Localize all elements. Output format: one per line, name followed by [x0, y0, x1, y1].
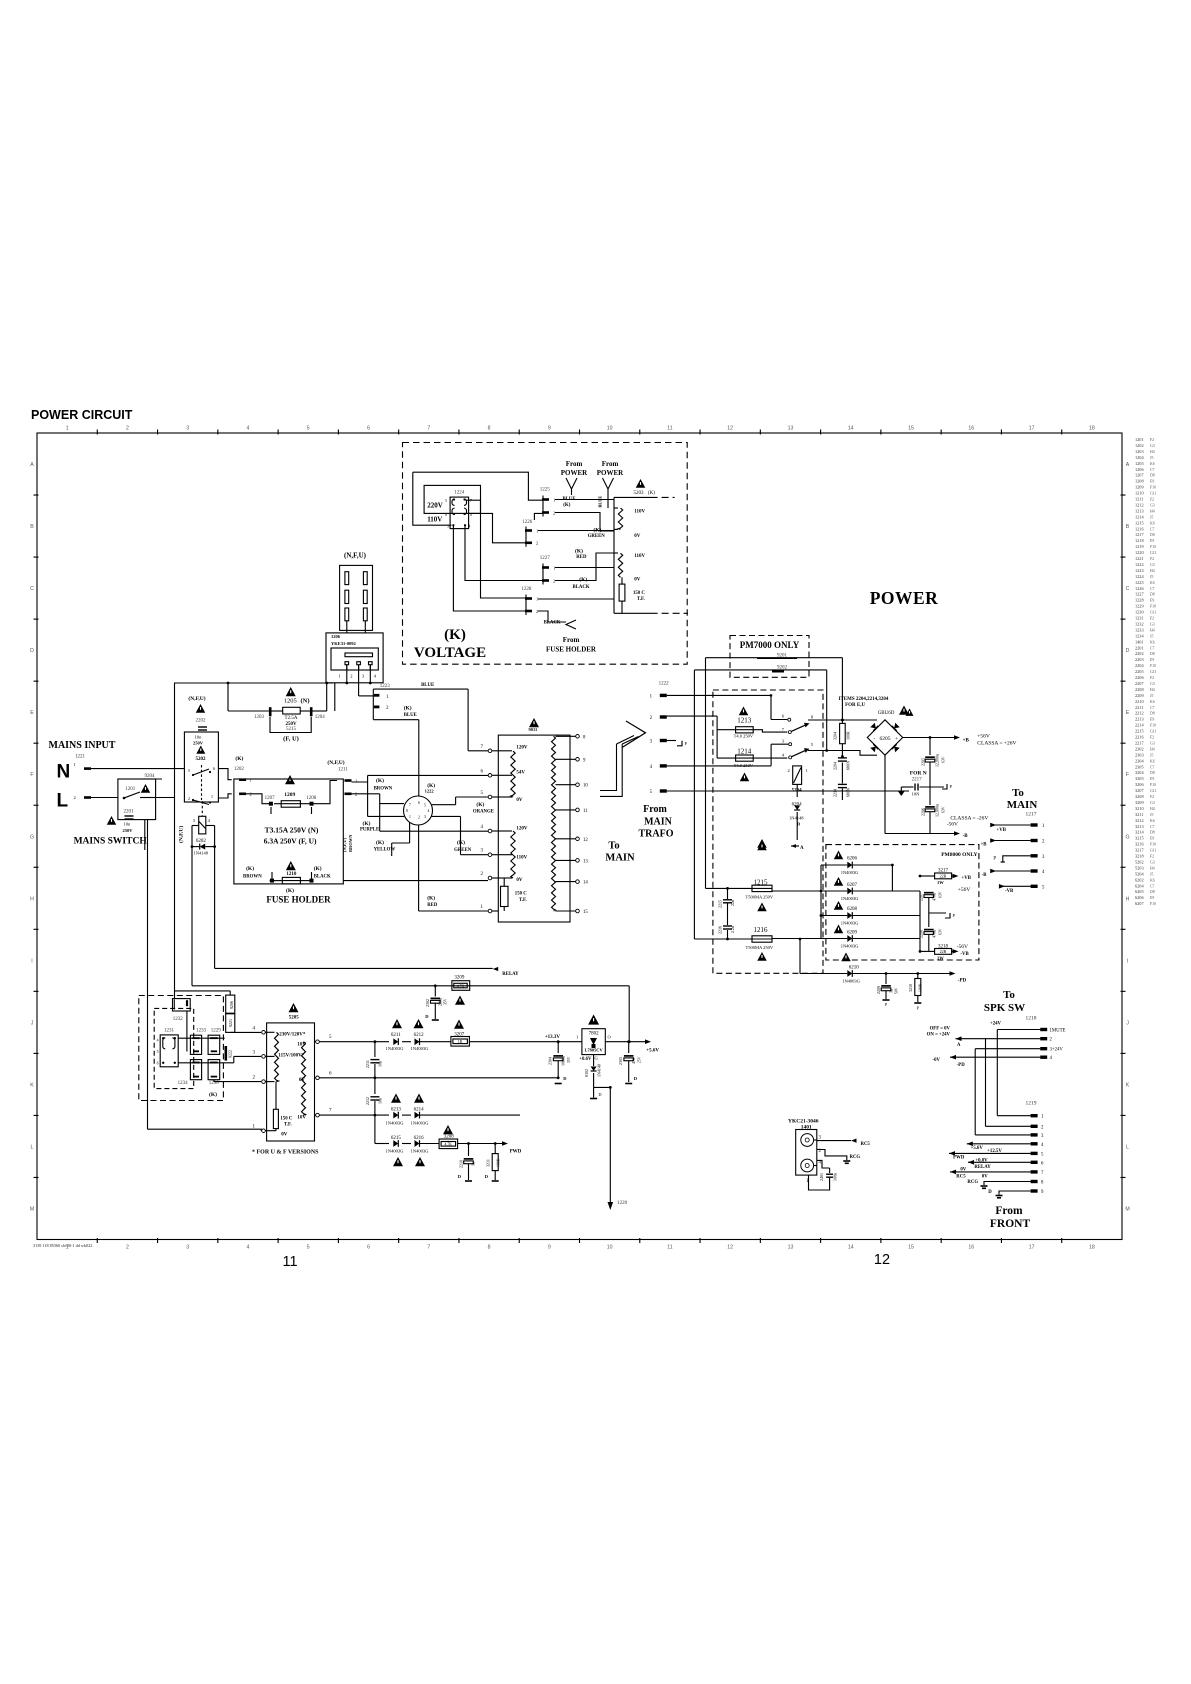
svg-text:5215: 5215 — [286, 727, 297, 732]
svg-text:1N4003G: 1N4003G — [386, 1046, 404, 1051]
svg-text:1N4003G: 1N4003G — [411, 1121, 429, 1126]
svg-text:K6: K6 — [1150, 521, 1155, 525]
svg-text:6207: 6207 — [1135, 901, 1144, 906]
svg-text:9221: 9221 — [228, 1019, 233, 1027]
svg-text:13: 13 — [788, 426, 794, 432]
svg-text:J5: J5 — [1150, 813, 1153, 817]
svg-text:1208: 1208 — [1135, 479, 1144, 484]
svg-text:+5.6V: +5.6V — [646, 1049, 659, 1054]
svg-text:1: 1 — [66, 426, 69, 432]
svg-text:TRAFO: TRAFO — [639, 829, 674, 840]
svg-text:63V: 63V — [939, 928, 943, 935]
svg-text:2214: 2214 — [1135, 723, 1144, 728]
svg-text:GREEN: GREEN — [454, 848, 472, 853]
svg-text:3210: 3210 — [1135, 806, 1144, 811]
svg-text:From: From — [602, 460, 619, 468]
svg-text:7: 7 — [427, 1245, 430, 1251]
svg-text:P: P — [993, 857, 996, 862]
svg-text:1211: 1211 — [338, 768, 348, 773]
svg-text:6207: 6207 — [847, 883, 858, 888]
svg-text:5: 5 — [188, 768, 190, 773]
svg-text:10: 10 — [607, 1245, 613, 1251]
svg-text:FUSE HOLDER: FUSE HOLDER — [546, 646, 597, 654]
svg-text:1N4003G: 1N4003G — [386, 1149, 404, 1154]
svg-text:(K): (K) — [314, 865, 322, 872]
svg-text:(N,F,U): (N,F,U) — [188, 695, 205, 702]
svg-text:+B: +B — [963, 739, 970, 744]
svg-text:J5: J5 — [1150, 515, 1153, 519]
svg-text:RED: RED — [427, 903, 438, 908]
svg-text:5203: 5203 — [634, 491, 645, 496]
svg-text:CLASSA = +26V: CLASSA = +26V — [977, 741, 1016, 747]
svg-text:F: F — [1126, 772, 1129, 778]
svg-text:1u: 1u — [889, 989, 894, 993]
svg-text:1N4003G: 1N4003G — [386, 1121, 404, 1126]
svg-text:150 C: 150 C — [280, 1117, 292, 1122]
svg-text:POWER: POWER — [870, 588, 939, 608]
svg-text:G3: G3 — [1150, 622, 1155, 626]
svg-text:9: 9 — [548, 1245, 551, 1251]
svg-text:From: From — [643, 804, 667, 815]
svg-text:F2: F2 — [1150, 855, 1154, 859]
svg-text:OFF = 0V: OFF = 0V — [930, 1027, 951, 1032]
svg-text:14: 14 — [848, 1245, 854, 1251]
svg-text:680N: 680N — [846, 761, 851, 770]
svg-text:9222: 9222 — [228, 1050, 233, 1058]
svg-text:1203: 1203 — [254, 715, 265, 720]
svg-text:1223: 1223 — [380, 684, 391, 689]
svg-text:F10: F10 — [1150, 605, 1156, 609]
svg-text:-B: -B — [963, 834, 969, 839]
svg-text:C7: C7 — [1150, 468, 1155, 472]
svg-text:1201: 1201 — [125, 787, 136, 792]
svg-text:T.F.: T.F. — [284, 1123, 292, 1128]
svg-text:3210: 3210 — [908, 984, 913, 992]
svg-text:13: 13 — [583, 859, 588, 864]
svg-text:2207: 2207 — [1135, 681, 1144, 686]
svg-text:12: 12 — [727, 1245, 733, 1251]
svg-text:F2: F2 — [1150, 617, 1154, 621]
svg-text:2401: 2401 — [819, 1173, 824, 1181]
svg-text:1224: 1224 — [454, 490, 465, 495]
svg-text:C7: C7 — [1150, 765, 1155, 769]
svg-text:2: 2 — [536, 541, 538, 546]
svg-text:F10: F10 — [1150, 783, 1156, 787]
svg-text:3214: 3214 — [1135, 830, 1144, 835]
svg-text:B: B — [1126, 524, 1130, 530]
svg-text:(N,F,U): (N,F,U) — [344, 551, 367, 559]
svg-text:2208: 2208 — [919, 930, 924, 938]
svg-text:2304: 2304 — [1135, 758, 1144, 763]
svg-text:6212: 6212 — [414, 1033, 425, 1038]
svg-text:6206: 6206 — [847, 857, 858, 862]
svg-text:2211: 2211 — [1135, 705, 1143, 710]
svg-text:F2: F2 — [1150, 438, 1154, 442]
svg-text:1221: 1221 — [1135, 556, 1144, 561]
svg-text:3+24V: 3+24V — [1050, 1048, 1064, 1053]
svg-text:1223: 1223 — [1135, 568, 1144, 573]
svg-text:F2: F2 — [1150, 795, 1154, 799]
svg-text:3212: 3212 — [1135, 818, 1144, 823]
svg-text:J5: J5 — [1150, 694, 1153, 698]
svg-text:3213: 3213 — [1135, 824, 1144, 829]
svg-text:1: 1 — [806, 768, 808, 773]
svg-text:T4.0 250V: T4.0 250V — [734, 734, 754, 739]
svg-text:1N4148: 1N4148 — [194, 851, 209, 856]
svg-text:1229: 1229 — [1135, 604, 1144, 609]
svg-text:H4: H4 — [1150, 807, 1155, 811]
svg-text:K6: K6 — [1150, 700, 1155, 704]
svg-text:1: 1 — [211, 794, 213, 799]
svg-text:3217: 3217 — [1135, 848, 1144, 853]
svg-text:E: E — [30, 710, 34, 716]
svg-text:M: M — [1125, 1206, 1129, 1212]
svg-text:1231: 1231 — [1135, 616, 1144, 621]
svg-text:120V: 120V — [516, 746, 528, 751]
svg-text:H: H — [1126, 896, 1130, 902]
svg-text:1202: 1202 — [234, 767, 245, 772]
svg-text:F10: F10 — [1150, 486, 1156, 490]
svg-text:220u: 220u — [438, 998, 443, 1006]
svg-text:F2: F2 — [1150, 676, 1154, 680]
svg-text:D8: D8 — [1150, 474, 1155, 478]
svg-text:6205: 6205 — [1135, 889, 1144, 894]
svg-text:1208: 1208 — [306, 796, 317, 801]
svg-text:ITEMS 2204,2214,3204: ITEMS 2204,2214,3204 — [839, 697, 889, 702]
svg-text:1N4003G: 1N4003G — [841, 944, 859, 949]
svg-text:ON = +24V: ON = +24V — [927, 1033, 951, 1038]
svg-text:9206: 9206 — [229, 1001, 234, 1009]
svg-text:1216: 1216 — [754, 926, 769, 934]
svg-text:E9: E9 — [1150, 777, 1154, 781]
svg-text:+5.6V: +5.6V — [971, 1146, 984, 1151]
svg-text:RED: RED — [576, 555, 587, 560]
svg-text:-VB: -VB — [960, 952, 969, 957]
svg-text:16: 16 — [968, 1245, 974, 1251]
svg-text:54V: 54V — [516, 771, 525, 776]
svg-text:1206: 1206 — [1135, 467, 1144, 472]
svg-text:G11: G11 — [1150, 492, 1156, 496]
svg-text:+B: +B — [981, 843, 988, 848]
svg-text:1203: 1203 — [1135, 449, 1144, 454]
svg-text:7: 7 — [409, 803, 411, 807]
svg-text:C7: C7 — [1150, 884, 1155, 888]
svg-text:16: 16 — [968, 426, 974, 432]
svg-text:2217: 2217 — [1135, 740, 1144, 745]
svg-text:5: 5 — [445, 499, 447, 503]
svg-text:1205: 1205 — [1135, 461, 1144, 466]
svg-text:5204: 5204 — [1135, 871, 1144, 876]
svg-text:2205: 2205 — [1135, 669, 1144, 674]
svg-text:(K): (K) — [476, 801, 484, 808]
svg-text:MAIN: MAIN — [644, 817, 673, 828]
svg-text:1209: 1209 — [1135, 485, 1144, 490]
svg-text:6302: 6302 — [584, 1069, 589, 1077]
svg-text:BLACK: BLACK — [573, 585, 590, 590]
svg-text:1N4003G: 1N4003G — [841, 921, 859, 926]
svg-text:2215: 2215 — [718, 900, 723, 908]
svg-text:To: To — [1012, 787, 1024, 799]
svg-text:RCG: RCG — [850, 1155, 861, 1160]
svg-text:2303: 2303 — [1135, 752, 1144, 757]
svg-text:1N4003G: 1N4003G — [842, 979, 860, 984]
svg-text:K6: K6 — [1150, 581, 1155, 585]
svg-text:6214: 6214 — [414, 1108, 425, 1113]
svg-text:1219: 1219 — [1026, 1101, 1037, 1107]
svg-text:17: 17 — [1029, 426, 1035, 432]
svg-text:2.2n: 2.2n — [730, 926, 735, 933]
svg-text:-0V: -0V — [933, 1058, 941, 1063]
svg-text:10n: 10n — [195, 735, 203, 740]
svg-text:J5: J5 — [1150, 753, 1153, 757]
svg-text:T500MA 250V: T500MA 250V — [746, 894, 774, 899]
svg-text:E9: E9 — [1150, 896, 1154, 900]
svg-text:1: 1 — [536, 596, 538, 601]
svg-text:2213: 2213 — [1135, 717, 1144, 722]
svg-text:+VB: +VB — [962, 876, 972, 881]
svg-text:5202: 5202 — [196, 757, 207, 762]
svg-text:1207: 1207 — [265, 796, 276, 801]
svg-text:2: 2 — [126, 1245, 129, 1251]
svg-text:4: 4 — [428, 809, 430, 813]
svg-text:E9: E9 — [1150, 718, 1154, 722]
svg-text:1233: 1233 — [196, 1029, 207, 1034]
svg-text:3: 3 — [186, 426, 189, 432]
svg-text:3211: 3211 — [486, 1159, 491, 1167]
svg-text:1204: 1204 — [315, 715, 326, 720]
svg-text:+13.3V: +13.3V — [545, 1035, 561, 1040]
svg-text:+0.8V: +0.8V — [975, 1159, 988, 1164]
svg-text:1W: 1W — [937, 956, 944, 961]
svg-text:4.7K: 4.7K — [445, 1143, 453, 1147]
svg-text:G3: G3 — [1150, 444, 1155, 448]
svg-text:F10: F10 — [1150, 724, 1156, 728]
svg-text:E9: E9 — [1150, 658, 1154, 662]
svg-text:15: 15 — [908, 1245, 914, 1251]
svg-text:5: 5 — [424, 804, 426, 808]
svg-text:100R: 100R — [846, 731, 851, 740]
svg-text:BLACK: BLACK — [314, 875, 331, 880]
svg-text:1218: 1218 — [1135, 538, 1144, 543]
svg-text:1R: 1R — [458, 1040, 463, 1044]
svg-text:E9: E9 — [1150, 539, 1154, 543]
svg-text:4: 4 — [247, 1245, 250, 1251]
svg-text:(K): (K) — [376, 839, 384, 846]
svg-text:G11: G11 — [1150, 849, 1156, 853]
svg-text:MAIN: MAIN — [1007, 799, 1038, 811]
svg-text:100K: 100K — [919, 983, 923, 992]
svg-text:(K): (K) — [209, 1091, 217, 1098]
svg-text:0V: 0V — [960, 1168, 966, 1173]
svg-text:F2: F2 — [1150, 498, 1154, 502]
svg-text:0V: 0V — [634, 578, 641, 583]
svg-text:2206: 2206 — [1135, 675, 1144, 680]
svg-text:6213: 6213 — [391, 1108, 402, 1113]
svg-text:B: B — [30, 524, 34, 530]
svg-text:7: 7 — [470, 499, 472, 503]
svg-text:22R: 22R — [940, 874, 947, 879]
svg-text:1201: 1201 — [1135, 437, 1144, 442]
svg-text:RC5: RC5 — [861, 1142, 871, 1147]
svg-text:C7: C7 — [1150, 587, 1155, 591]
svg-text:H: H — [30, 896, 34, 902]
svg-text:2207: 2207 — [919, 893, 924, 901]
svg-text:1218: 1218 — [1026, 1016, 1037, 1022]
svg-text:9: 9 — [548, 426, 551, 432]
svg-text:K: K — [30, 1082, 34, 1088]
svg-text:230V/120V*: 230V/120V* — [279, 1033, 306, 1038]
svg-text:FOR E,U: FOR E,U — [845, 703, 865, 708]
svg-text:150 C: 150 C — [633, 591, 645, 596]
svg-text:1: 1 — [576, 1035, 578, 1040]
svg-text:680N: 680N — [846, 788, 851, 797]
svg-text:1220: 1220 — [617, 1201, 628, 1206]
svg-text:T2.5A: T2.5A — [285, 716, 298, 721]
svg-text:T3.15A 250V (N): T3.15A 250V (N) — [265, 826, 319, 835]
svg-text:12: 12 — [874, 1252, 890, 1268]
svg-text:D: D — [988, 1190, 992, 1195]
svg-text:(K): (K) — [648, 491, 655, 496]
svg-text:2212: 2212 — [1135, 711, 1144, 716]
svg-text:1222: 1222 — [425, 788, 435, 793]
svg-text:BLACK: BLACK — [544, 621, 561, 626]
svg-text:PWD: PWD — [953, 1156, 965, 1161]
svg-text:FOR N: FOR N — [910, 771, 927, 777]
svg-text:6: 6 — [367, 1245, 370, 1251]
svg-text:110V: 110V — [634, 510, 645, 515]
svg-text:H4: H4 — [1150, 569, 1155, 573]
svg-text:1401: 1401 — [1135, 639, 1144, 644]
svg-text:11: 11 — [667, 426, 672, 432]
svg-text:POWER: POWER — [561, 469, 588, 477]
svg-text:2: 2 — [788, 768, 790, 773]
svg-text:1226: 1226 — [1135, 586, 1144, 591]
svg-text:1214: 1214 — [1135, 514, 1144, 519]
svg-text:1: 1 — [250, 778, 252, 783]
svg-text:1000u: 1000u — [561, 1056, 566, 1066]
svg-text:6: 6 — [367, 426, 370, 432]
svg-text:7: 7 — [427, 426, 430, 432]
svg-text:ORANGE: ORANGE — [473, 810, 494, 815]
svg-text:+24V: +24V — [990, 1022, 1002, 1027]
svg-text:D: D — [1126, 648, 1130, 654]
svg-text:M: M — [30, 1206, 34, 1212]
svg-text:1N4003G: 1N4003G — [411, 1046, 429, 1051]
svg-text:3139 118 85360 sh100-1 dd wk0: 3139 118 85360 sh100-1 dd wk022 — [33, 1243, 92, 1248]
svg-text:1220: 1220 — [1135, 550, 1144, 555]
svg-text:2302: 2302 — [425, 999, 430, 1007]
svg-text:1233: 1233 — [1135, 627, 1144, 632]
svg-text:14: 14 — [583, 881, 588, 886]
svg-text:From: From — [563, 636, 580, 644]
svg-text:D8: D8 — [1150, 831, 1155, 835]
svg-text:1234: 1234 — [1135, 633, 1144, 638]
svg-text:5: 5 — [157, 1050, 159, 1054]
svg-text:I: I — [31, 958, 32, 964]
svg-text:1: 1 — [553, 565, 555, 570]
svg-text:2202: 2202 — [1135, 651, 1144, 656]
svg-text:+56V: +56V — [958, 887, 971, 893]
svg-text:220V: 220V — [427, 502, 443, 510]
svg-text:E: E — [1126, 710, 1130, 716]
svg-text:2212: 2212 — [365, 1097, 370, 1105]
svg-text:10: 10 — [583, 784, 588, 789]
svg-text:2: 2 — [536, 609, 538, 614]
svg-text:T.F.: T.F. — [637, 597, 645, 602]
svg-text:2205: 2205 — [921, 758, 926, 766]
svg-text:1225: 1225 — [1135, 580, 1144, 585]
svg-text:To: To — [608, 841, 619, 852]
svg-text:2209: 2209 — [876, 986, 881, 994]
svg-text:110V: 110V — [634, 554, 645, 559]
svg-text:63V: 63V — [942, 806, 946, 813]
svg-text:G3: G3 — [1150, 860, 1155, 864]
svg-text:J5: J5 — [1150, 872, 1153, 876]
svg-text:K: K — [1126, 1082, 1130, 1088]
svg-text:A: A — [1126, 462, 1130, 468]
svg-text:6: 6 — [445, 513, 447, 517]
svg-text:2202: 2202 — [196, 719, 207, 724]
svg-text:3209: 3209 — [454, 976, 465, 981]
svg-text:1225: 1225 — [540, 487, 551, 492]
svg-text:1229: 1229 — [211, 1029, 222, 1034]
svg-text:BROWN: BROWN — [374, 787, 393, 792]
svg-text:12: 12 — [583, 838, 588, 843]
svg-text:G: G — [30, 834, 34, 840]
svg-text:6206: 6206 — [1135, 895, 1144, 900]
svg-text:5: 5 — [307, 1245, 310, 1251]
svg-text:35V: 35V — [567, 1056, 571, 1063]
svg-text:PM8000 ONLY: PM8000 ONLY — [941, 852, 977, 858]
svg-text:6208: 6208 — [847, 907, 858, 912]
svg-text:K6: K6 — [1150, 759, 1155, 763]
svg-text:H4: H4 — [1150, 688, 1155, 692]
svg-text:1232: 1232 — [1135, 621, 1144, 626]
svg-text:C: C — [1126, 586, 1130, 592]
svg-text:PWD: PWD — [510, 1150, 522, 1155]
svg-text:115V/100V*: 115V/100V* — [278, 1054, 304, 1059]
svg-text:3204: 3204 — [1135, 770, 1144, 775]
svg-text:F2: F2 — [1150, 557, 1154, 561]
svg-text:3216: 3216 — [1135, 842, 1144, 847]
svg-text:8: 8 — [406, 809, 408, 813]
svg-text:5203: 5203 — [1135, 865, 1144, 870]
svg-text:J: J — [31, 1020, 34, 1026]
svg-text:L: L — [57, 791, 69, 812]
svg-text:1217: 1217 — [1135, 532, 1144, 537]
svg-text:2215: 2215 — [1135, 729, 1144, 734]
svg-text:9204: 9204 — [145, 774, 156, 779]
svg-text:1N4003G: 1N4003G — [841, 896, 859, 901]
svg-text:6202: 6202 — [196, 839, 207, 844]
svg-text:2209: 2209 — [1135, 693, 1144, 698]
svg-text:(K): (K) — [363, 820, 371, 827]
svg-text:POWER CIRCUIT: POWER CIRCUIT — [31, 408, 133, 422]
svg-text:3204: 3204 — [833, 732, 838, 740]
svg-text:BLUE: BLUE — [421, 683, 434, 688]
svg-text:2204: 2204 — [833, 762, 838, 770]
svg-text:1214: 1214 — [737, 748, 752, 756]
svg-text:D8: D8 — [1150, 593, 1155, 597]
svg-text:63V: 63V — [942, 756, 946, 763]
svg-text:C7: C7 — [1150, 646, 1155, 650]
svg-text:2206: 2206 — [921, 808, 926, 816]
svg-text:470: 470 — [631, 1058, 636, 1064]
svg-text:+12.5V: +12.5V — [987, 1149, 1002, 1154]
svg-text:T500MA 250V: T500MA 250V — [746, 945, 774, 950]
svg-text:10V: 10V — [297, 1116, 306, 1121]
svg-text:BROWN: BROWN — [243, 875, 262, 880]
